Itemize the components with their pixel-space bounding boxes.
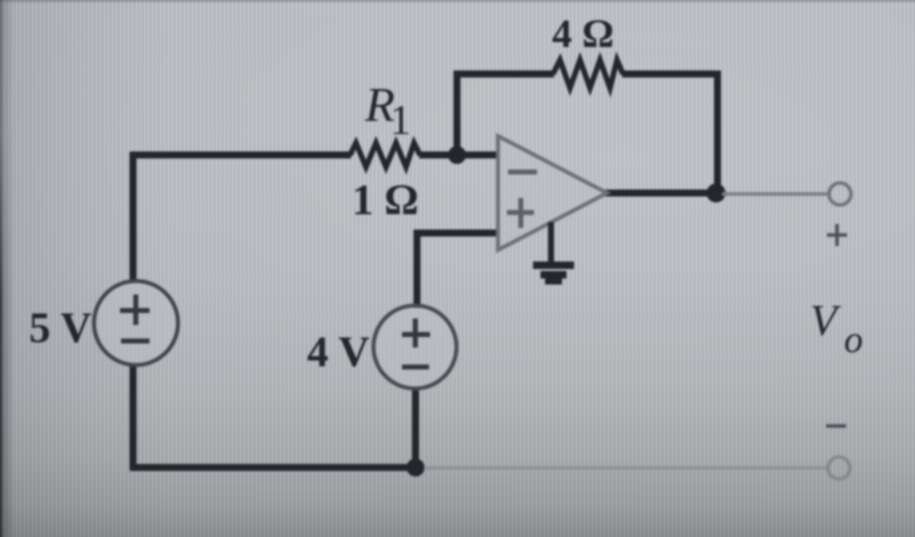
op-amp U1 triangle <box>498 136 607 250</box>
wire: feedback riser up from node A <box>454 71 461 158</box>
wire: op-amp noninverting input horizontal <box>414 230 499 237</box>
wire: op-amp output to output node <box>605 190 721 197</box>
V1 plus sign <box>120 295 150 326</box>
wire: top horizontal from left rail to resistor R1 <box>130 152 351 159</box>
op-amp noninverting input plus sign <box>507 198 534 228</box>
ground: bottom bar <box>545 279 562 285</box>
terminal: output - open circle <box>828 457 850 479</box>
wire: left vertical rail from 5V source to bottom corner <box>130 364 137 470</box>
wire: feedback top horizontal left of 4-ohm resistor <box>454 71 555 78</box>
ground: top bar <box>533 262 574 270</box>
svg-text:V: V <box>810 296 842 345</box>
node C: bottom junction dot <box>407 459 425 477</box>
resistor 4-ohm zigzag (feedback) <box>553 60 623 88</box>
wire: left vertical rail from top corner to 5V source <box>130 152 137 282</box>
resistor R1 zigzag <box>350 143 420 167</box>
wire: gray lead from output node to + terminal <box>722 192 829 196</box>
svg-text:o: o <box>844 319 863 361</box>
V2 plus sign <box>402 319 430 348</box>
output + polarity mark <box>827 224 847 246</box>
wire: bottom horizontal rail <box>130 464 420 471</box>
wire: feedback right vertical down to output node <box>714 71 721 194</box>
op-amp inverting input minus sign <box>508 170 537 175</box>
V2 minus sign <box>402 365 429 370</box>
voltage source V1 5V circle <box>94 281 178 365</box>
svg-text:4 V: 4 V <box>307 329 370 376</box>
node B: output junction dot <box>707 184 726 203</box>
svg-text:4 Ω: 4 Ω <box>552 11 614 56</box>
wire: riser down from noninverting input to 4V source <box>414 230 421 308</box>
svg-text:5 V: 5 V <box>29 305 92 352</box>
voltage source V2 4V circle <box>374 306 457 389</box>
ground: stem from op-amp lower edge <box>548 222 554 262</box>
V1 minus sign <box>121 339 150 344</box>
ground: middle bar <box>541 271 567 279</box>
node A: junction dot at R1 output / feedback tap <box>448 146 466 164</box>
output - polarity mark <box>826 424 846 428</box>
svg-text:1: 1 <box>390 98 411 144</box>
wire: from 4V source bottom to bottom rail <box>412 387 419 470</box>
wire: from R1 to op-amp inverting input <box>419 152 499 159</box>
terminal: output + open circle <box>829 183 851 205</box>
svg-text:1 Ω: 1 Ω <box>352 177 419 224</box>
wire: feedback top horizontal right of 4-ohm resistor <box>622 71 721 78</box>
wire: gray lead from bottom node to - terminal <box>424 467 827 470</box>
